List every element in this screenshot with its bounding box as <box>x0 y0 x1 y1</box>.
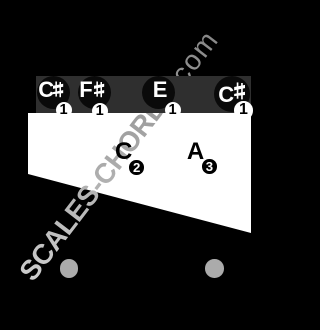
note A (fret 3) <box>187 138 204 166</box>
note dot C#1 <box>37 76 70 109</box>
label F# <box>79 77 92 103</box>
finger badge 1 on C#2 <box>234 101 252 119</box>
note dot C#2 <box>214 76 250 112</box>
note dot E <box>142 76 175 109</box>
finger badge 1 on F# <box>92 103 108 119</box>
note dot F# <box>78 76 111 109</box>
sharp sign 2 <box>94 81 104 98</box>
label E <box>153 77 168 103</box>
note C (fret 2) <box>115 138 132 166</box>
sharp sign 1 <box>53 81 63 98</box>
label C#1 <box>38 77 54 103</box>
sharp sign 3 <box>234 82 245 100</box>
finger badge 1 on E <box>165 102 181 118</box>
fret marker dot left <box>60 259 78 277</box>
label C#2 <box>218 82 234 108</box>
watermark "SCALES-CHORDS.com" diagonal <box>0 0 255 330</box>
fret marker dot right <box>205 259 224 278</box>
nut band <box>36 76 251 113</box>
finger badge 1 on C#1 <box>56 102 72 118</box>
finger badge 2 on C <box>129 160 144 175</box>
finger badge 3 on A <box>202 159 217 174</box>
white fretboard area (diagonal lower edge) <box>0 0 255 330</box>
